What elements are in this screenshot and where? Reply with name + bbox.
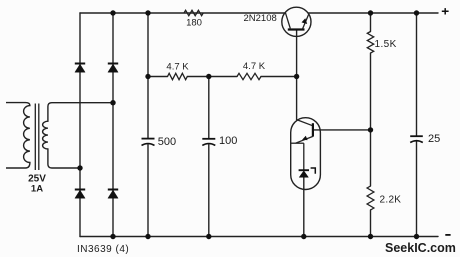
node bottom rail / zener — [301, 234, 306, 239]
zener diode VR1 — [299, 168, 316, 177]
transformer T1 core — [35, 104, 39, 171]
svg-text:4.7 K: 4.7 K — [243, 61, 266, 72]
wire output cap column x=416.5 — [416, 13, 418, 237]
resistor 4.7K (right) — [237, 73, 261, 79]
reference amplifier U1 (transistor + zener in stadium outline) — [291, 118, 321, 190]
resistor 2.2K — [367, 186, 374, 210]
diode D1 (upper left) — [75, 64, 85, 73]
node top rail / 1.5K — [368, 10, 373, 15]
svg-text:100: 100 — [219, 135, 237, 147]
wire base lead of reference amplifier to divider — [313, 129, 371, 131]
wire vertical at x=148 (filter cap branch) — [147, 13, 149, 237]
wire bottom rail — [80, 236, 438, 238]
svg-text:180: 180 — [186, 17, 202, 28]
diode D4 (lower right) — [108, 190, 118, 199]
svg-text:25: 25 — [428, 133, 440, 145]
node divider / base lead — [368, 127, 373, 132]
node secondary top lead — [110, 100, 115, 105]
wire zener cathode lead down to bottom rail — [303, 177, 305, 237]
resistor 180 — [184, 10, 203, 15]
svg-text:1.5K: 1.5K — [375, 39, 397, 50]
svg-text:IN3639 (4): IN3639 (4) — [77, 244, 129, 255]
wire right bridge vertical — [112, 13, 114, 237]
svg-text:4.7 K: 4.7 K — [166, 61, 189, 72]
wire top rail left segment — [80, 12, 286, 14]
node bottom rail / right bridge — [110, 234, 115, 239]
svg-text:2N2108: 2N2108 — [244, 13, 277, 24]
node top rail / output cap — [414, 10, 419, 15]
wire right column x=370.5 — [370, 13, 372, 237]
node bottom rail / output cap — [414, 234, 419, 239]
node bottom rail / cap 500 — [145, 234, 150, 239]
node middle row center — [206, 74, 211, 79]
node bottom rail / 2.2K — [368, 234, 373, 239]
capacitor 100 — [202, 139, 215, 146]
resistor 4.7K (left) — [168, 73, 188, 79]
node bottom rail / cap 100 — [206, 234, 211, 239]
wire base lead Q1 down to oval — [296, 30, 298, 120]
node top rail / cap branch — [145, 10, 150, 15]
plus terminal — [442, 8, 449, 14]
wire middle row — [148, 76, 297, 78]
node top rail / right bridge — [110, 10, 115, 15]
node middle row left — [145, 74, 150, 79]
diode D2 (upper right) — [108, 64, 118, 73]
wire left bridge vertical — [79, 13, 81, 237]
transistor Q1 2N2108 — [282, 7, 311, 36]
transformer T1 secondary winding — [43, 103, 113, 168]
node secondary bottom lead — [77, 165, 82, 170]
svg-text:2.2K: 2.2K — [380, 194, 402, 205]
node middle row right — [294, 74, 299, 79]
diode D3 (lower left) — [75, 190, 85, 199]
svg-text:1A: 1A — [31, 183, 43, 194]
resistor 1.5K — [367, 32, 373, 54]
capacitor 500 — [142, 139, 155, 146]
wire vertical at x=208.8 (second cap branch) — [208, 77, 210, 237]
wire top rail right segment — [309, 12, 439, 14]
svg-text:SeekIC.com: SeekIC.com — [385, 241, 456, 255]
svg-text:500: 500 — [158, 136, 176, 148]
minus terminal — [445, 234, 450, 236]
transformer T1 primary winding — [6, 103, 30, 168]
capacitor 25 (output) — [410, 136, 423, 142]
